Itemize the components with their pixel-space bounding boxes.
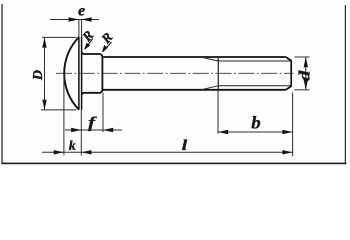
svg-text:f: f	[88, 114, 97, 132]
svg-text:D: D	[31, 70, 46, 81]
svg-text:l: l	[182, 137, 188, 153]
svg-text:R: R	[98, 30, 116, 47]
svg-text:e: e	[78, 3, 85, 20]
svg-text:d: d	[296, 70, 314, 81]
svg-text:k: k	[69, 139, 76, 154]
svg-text:b: b	[251, 113, 260, 133]
